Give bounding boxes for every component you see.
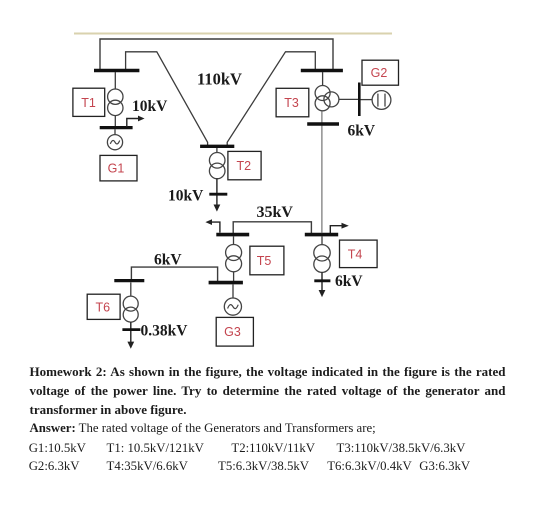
svg-text:10kV: 10kV xyxy=(168,188,204,205)
transformer T4 xyxy=(314,245,330,273)
label box G1 xyxy=(100,155,137,181)
transformer T2 xyxy=(209,153,225,179)
wire bus to G1 xyxy=(114,129,116,135)
wire T3 to G2 bus xyxy=(339,98,358,100)
wire T6 load feeder xyxy=(130,322,132,342)
svg-text:G3: G3 xyxy=(224,325,241,339)
label box T1 xyxy=(73,88,105,116)
bus G2 xyxy=(358,83,361,117)
arrow 35kV left xyxy=(205,219,220,232)
wire 35kV line xyxy=(233,222,311,233)
svg-text:T2: T2 xyxy=(237,159,252,173)
wire bus to G3 xyxy=(232,284,234,298)
svg-text:110kV: 110kV xyxy=(197,70,242,89)
svg-text:T6: T6 xyxy=(96,301,111,315)
svg-text:0.38kV: 0.38kV xyxy=(141,323,189,340)
label box T5 xyxy=(250,246,284,275)
feeder arrow 10kV xyxy=(127,116,145,127)
bus 6kV below T3 xyxy=(307,122,339,126)
label box T4 xyxy=(340,240,378,268)
transformer T5 xyxy=(226,245,242,272)
homework paragraph line 1 xyxy=(30,364,506,380)
wire bus to T2 xyxy=(216,148,218,153)
svg-text:G1: G1 xyxy=(108,162,125,176)
label box T3 xyxy=(276,88,309,117)
wire left branch to middle bus xyxy=(126,52,208,147)
bus 6kV T6 xyxy=(114,279,144,282)
svg-text:T5: T5 xyxy=(257,254,272,268)
label box G2 xyxy=(362,60,399,85)
svg-text:T4: T4 xyxy=(348,247,363,261)
wire T5 to 6kV bus xyxy=(233,272,235,282)
bus 110kV right xyxy=(301,69,343,73)
wire T4 load feeder xyxy=(321,272,323,290)
wire T2 load feeder xyxy=(216,179,218,205)
wire T3 tertiary down xyxy=(321,111,323,233)
bar 10kV terminal xyxy=(209,193,227,196)
generator G2 symbol xyxy=(372,91,391,110)
svg-text:35kV: 35kV xyxy=(257,204,294,221)
label box T6 xyxy=(87,294,120,319)
homework paragraph line 2 xyxy=(30,383,506,399)
answer values row 1 xyxy=(0,440,1,442)
answer line xyxy=(30,421,376,436)
wire bus to T6 xyxy=(130,282,132,296)
svg-text:6kV: 6kV xyxy=(335,273,363,290)
wire bus to T5 xyxy=(233,236,235,244)
bus 110kV middle (T2) xyxy=(200,145,234,148)
arrowhead 6kV load T4 xyxy=(319,290,326,297)
wire 6kV link T6 to G3 bus xyxy=(131,267,217,281)
svg-text:10kV: 10kV xyxy=(132,98,168,115)
bus 6kV generator G3 xyxy=(209,281,243,285)
wire right branch to middle bus xyxy=(227,52,315,147)
arrowhead 0.38kV load xyxy=(127,342,134,349)
wire top 110kV tie xyxy=(100,39,333,70)
decorative top rule xyxy=(74,33,392,35)
svg-text:G2: G2 xyxy=(371,66,388,80)
wire T1 to 10kV bus xyxy=(114,116,116,127)
arrowhead 10kV load xyxy=(214,205,221,212)
bar 6kV terminal T4 xyxy=(314,279,330,282)
transformer T3 three-winding xyxy=(315,86,339,111)
svg-text:T1: T1 xyxy=(81,96,96,110)
generator G1 symbol xyxy=(107,135,122,150)
bus 35kV left xyxy=(216,233,249,237)
wire bus to T3 xyxy=(322,72,324,86)
bar 0.38kV terminal xyxy=(122,328,140,331)
wire bus to T4 xyxy=(321,236,323,244)
label box T2 xyxy=(228,151,261,179)
svg-text:6kV: 6kV xyxy=(348,123,376,140)
svg-text:T3: T3 xyxy=(284,96,299,110)
label box G3 xyxy=(216,317,253,346)
transformer T1 xyxy=(108,89,123,116)
arrow 35kV right xyxy=(330,223,349,234)
wire bus to G2 xyxy=(361,99,373,101)
generator G3 symbol xyxy=(224,298,241,315)
bus 110kV left xyxy=(94,69,139,73)
wire bus to T1 xyxy=(114,72,116,89)
svg-text:6kV: 6kV xyxy=(154,252,182,269)
bus 10kV generator G1 xyxy=(100,126,133,129)
bus 35kV right xyxy=(305,233,338,237)
transformer T6 xyxy=(123,296,138,322)
homework paragraph line 3 xyxy=(30,402,187,418)
answer values row 2 xyxy=(0,458,1,460)
